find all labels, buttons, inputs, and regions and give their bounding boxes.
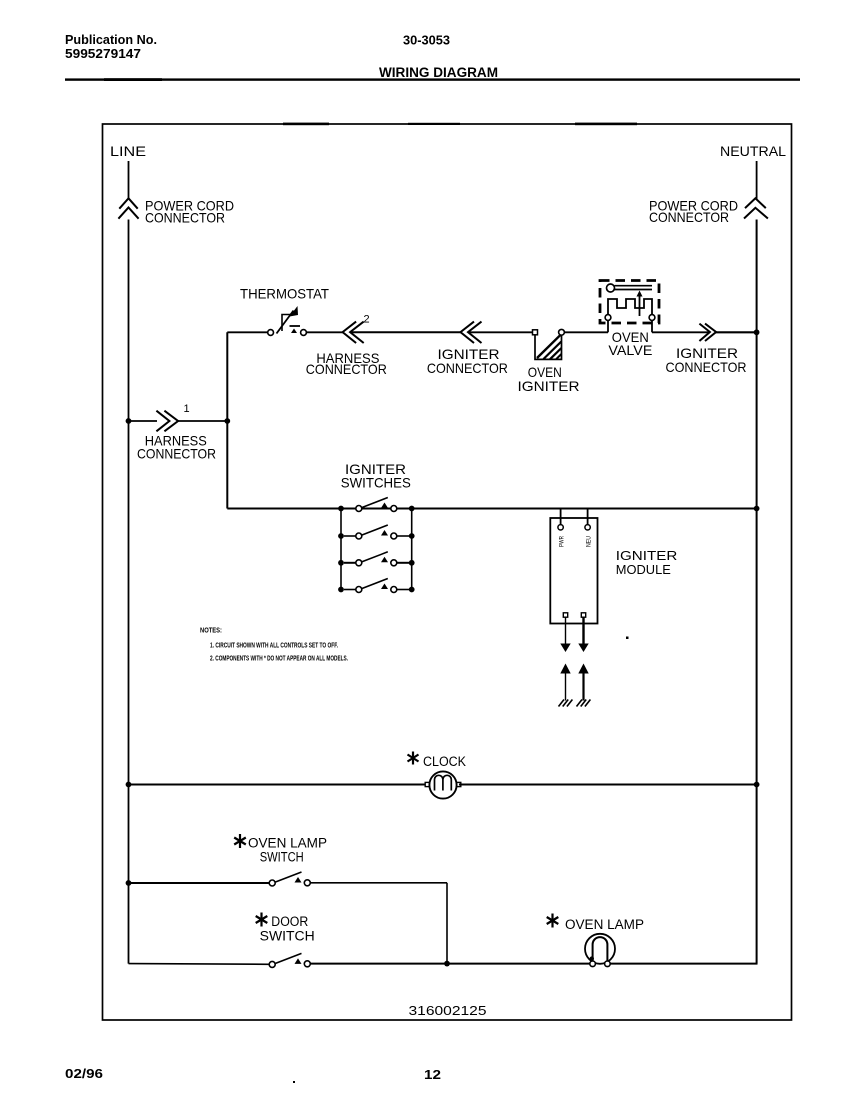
oven igniter label	[518, 364, 580, 394]
svg-text:12: 12	[424, 1067, 441, 1082]
svg-text:CONNECTOR: CONNECTOR	[145, 210, 225, 226]
svg-text:IGNITER: IGNITER	[518, 378, 580, 394]
diagram border frame	[103, 124, 792, 1020]
svg-text:OVEN LAMP: OVEN LAMP	[565, 917, 644, 932]
oven valve label	[608, 329, 652, 358]
junction switch rail right top	[409, 506, 415, 512]
svg-text:CONNECTOR: CONNECTOR	[427, 360, 508, 376]
wire igniter connector to oven igniter	[468, 331, 532, 333]
junction lamp branch / door switch row	[444, 961, 450, 967]
power cord connector right label	[649, 198, 738, 226]
wire module NEU tap	[587, 509, 589, 525]
door switch	[269, 953, 310, 967]
wire igniter lead right with arrow	[578, 664, 588, 701]
oven igniter	[533, 329, 565, 359]
clock asterisk	[408, 752, 419, 765]
power cord connector right (chevrons)	[744, 198, 768, 218]
power cord connector left label	[145, 198, 234, 226]
thermostat	[268, 306, 307, 335]
svg-text:NEU: NEU	[586, 536, 593, 547]
wire lamp switch corner down	[446, 883, 448, 964]
wire loop vertical (thermostat branch)	[226, 332, 228, 508]
wire clock row right	[459, 784, 757, 786]
harness connector 2 (chevrons)	[343, 322, 364, 343]
wire lamp switch to corner	[310, 882, 447, 884]
svg-text:THERMOSTAT: THERMOSTAT	[240, 286, 329, 302]
wire oven valve right pin down	[651, 320, 653, 332]
junction switch 3 left	[338, 560, 344, 566]
wire thermostat row left segment	[227, 331, 267, 333]
junction switch 2 left	[338, 533, 344, 539]
svg-text:SWITCHES: SWITCHES	[341, 475, 411, 491]
wire harness row left segment	[129, 420, 158, 422]
svg-text:02/96: 02/96	[65, 1066, 103, 1081]
svg-text:CONNECTOR: CONNECTOR	[306, 361, 387, 377]
module output terminal right	[581, 613, 585, 617]
oven lamp switch label	[248, 836, 327, 865]
power cord connector left (chevrons)	[118, 198, 138, 218]
wire clock row left	[129, 784, 428, 786]
ground left	[559, 700, 573, 707]
svg-text:1: 1	[184, 403, 190, 415]
oven valve	[600, 281, 659, 324]
wire left rail	[128, 220, 130, 964]
wire module output left with arrow	[560, 618, 570, 653]
svg-text:CONNECTOR: CONNECTOR	[666, 359, 747, 375]
svg-text:IGNITER: IGNITER	[616, 548, 678, 563]
svg-text:Publication No.: Publication No.	[65, 32, 157, 47]
wire lamp switch row left	[129, 882, 270, 884]
oven lamp	[585, 934, 615, 967]
junction line rail / clock row	[126, 782, 132, 788]
oven lamp asterisk	[547, 914, 559, 928]
svg-text:1. CIRCUIT SHOWN WITH ALL CONT: 1. CIRCUIT SHOWN WITH ALL CONTROLS SET T…	[210, 643, 338, 650]
wire switch rail left	[340, 509, 342, 590]
igniter connector right label	[666, 345, 747, 375]
wire igniter lead left with arrow	[560, 664, 570, 701]
wire oven valve to igniter connector right	[652, 331, 710, 333]
svg-text:DOOR: DOOR	[271, 914, 308, 929]
junction loop vertical / harness row	[224, 418, 230, 424]
svg-text:316002125: 316002125	[409, 1004, 487, 1018]
svg-text:NOTES:: NOTES:	[200, 628, 222, 635]
harness connector 1 (chevrons)	[156, 411, 178, 432]
igniter switch 4	[344, 579, 412, 593]
junction switch rail left top	[338, 506, 344, 512]
svg-text:NEUTRAL: NEUTRAL	[720, 143, 786, 159]
oven lamp switch	[269, 872, 310, 886]
igniter module U1	[550, 518, 597, 624]
svg-text:LINE: LINE	[110, 143, 146, 159]
wire oven lamp to neutral rail	[610, 963, 757, 965]
svg-text:2. COMPONENTS WITH * DO NOT AP: 2. COMPONENTS WITH * DO NOT APPEAR ON AL…	[210, 656, 348, 663]
svg-text:SWITCH: SWITCH	[260, 929, 315, 944]
wire right rail	[756, 220, 758, 964]
wire left rail top stub	[128, 161, 130, 199]
wire oven valve left pin down	[607, 320, 609, 332]
ground right	[577, 700, 591, 707]
wire door switch row left	[129, 963, 270, 966]
igniter module label	[616, 548, 678, 577]
wire door switch to oven lamp	[310, 963, 590, 965]
wire igniter connector right to neutral rail	[716, 331, 757, 333]
wire right rail top stub	[756, 161, 758, 200]
wire harness connector to igniter connector	[350, 331, 460, 333]
junction switch 4 right	[409, 587, 415, 593]
oven lamp switch asterisk	[234, 834, 246, 848]
junction line rail / lamp switch row	[126, 880, 132, 886]
igniter switch 2	[344, 525, 412, 539]
module output terminal left	[563, 613, 567, 617]
stray mark below frame	[293, 1081, 295, 1083]
svg-text:CONNECTOR: CONNECTOR	[649, 209, 729, 225]
notes text	[200, 628, 348, 663]
igniter switch 3	[344, 552, 412, 566]
header publication label	[65, 32, 157, 61]
stray mark near module	[626, 637, 629, 640]
junction line rail / harness row	[126, 418, 132, 424]
igniter switch 1	[356, 498, 397, 512]
wire harness connector 1 to loop vertical	[178, 420, 227, 422]
svg-text:PWR: PWR	[559, 536, 566, 547]
svg-text:30-3053: 30-3053	[403, 33, 450, 48]
svg-text:CLOCK: CLOCK	[423, 754, 466, 769]
door switch label	[260, 914, 315, 944]
harness connector 2 label	[306, 350, 387, 377]
clock motor symbol	[425, 771, 461, 798]
svg-text:WIRING DIAGRAM: WIRING DIAGRAM	[379, 65, 498, 80]
door switch asterisk	[256, 913, 268, 927]
junction neutral rail / module row	[754, 506, 760, 512]
svg-text:MODULE: MODULE	[616, 562, 671, 577]
svg-text:CONNECTOR: CONNECTOR	[137, 446, 216, 462]
svg-text:VALVE: VALVE	[608, 342, 652, 358]
junction neutral rail / igniter row	[754, 329, 760, 335]
wire module PWR tap	[560, 509, 562, 525]
wire module output right with arrow	[578, 618, 588, 653]
wire switch rail right	[411, 509, 413, 590]
igniter connector left (chevrons)	[461, 322, 482, 343]
harness connector 1 label	[137, 433, 216, 462]
border scan marks	[104, 78, 637, 125]
svg-text:SWITCH: SWITCH	[260, 850, 304, 865]
svg-text:5995279147: 5995279147	[65, 46, 141, 61]
junction switch 4 left	[338, 587, 344, 593]
junction switch 3 right	[409, 560, 415, 566]
igniter connector left label	[427, 346, 508, 376]
junction neutral rail / clock row	[754, 782, 760, 788]
igniter connector right (chevrons)	[699, 324, 716, 341]
wire thermostat to harness connector	[306, 331, 342, 333]
igniter switches label	[341, 461, 411, 491]
svg-text:2: 2	[364, 314, 370, 326]
junction switch 2 right	[409, 533, 415, 539]
wire switch row main (loop to module row)	[227, 508, 756, 510]
header rule	[65, 78, 800, 80]
wire oven igniter to oven valve	[564, 331, 608, 333]
svg-text:OVEN LAMP: OVEN LAMP	[248, 836, 327, 851]
